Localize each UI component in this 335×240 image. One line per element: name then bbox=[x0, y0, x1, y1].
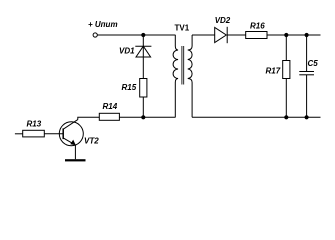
node junction top of VD1 bbox=[141, 33, 145, 37]
node +Upit terminal bbox=[93, 33, 97, 37]
wire collector to R14 bbox=[78, 117, 100, 119]
wire VD2 to R16 bbox=[227, 34, 246, 36]
resistor R17 bbox=[283, 61, 290, 79]
capacitor C5 bbox=[299, 35, 314, 117]
resistor R13 bbox=[23, 130, 45, 137]
transistor VT2 bbox=[59, 120, 83, 146]
transformer TV1 secondary winding bbox=[188, 35, 192, 117]
svg-text:R16: R16 bbox=[250, 21, 265, 30]
svg-text:R17: R17 bbox=[266, 66, 281, 75]
resistor R14 bbox=[99, 113, 119, 120]
resistor R16 bbox=[246, 32, 267, 39]
svg-text:VD1: VD1 bbox=[119, 47, 135, 56]
wire R15 bottom lead bbox=[142, 97, 144, 117]
resistor R15 bbox=[140, 79, 147, 98]
wire R17 top lead bbox=[285, 35, 287, 61]
svg-text:R14: R14 bbox=[103, 102, 118, 111]
wire top-right rail bbox=[267, 34, 321, 36]
svg-text:+ Uпит: + Uпит bbox=[88, 20, 118, 29]
wire R13 to base bbox=[44, 133, 63, 135]
node junction bottom of R17 bbox=[284, 115, 288, 119]
node junction bottom of R15 bbox=[141, 115, 145, 119]
wire left input to R13 bbox=[15, 133, 23, 135]
wire top rail left (terminal to transformer primary) bbox=[97, 34, 175, 36]
transformer TV1 core bbox=[181, 46, 183, 85]
transformer TV1 primary winding bbox=[173, 35, 178, 117]
wire emitter lead bbox=[74, 145, 76, 159]
wire bottom-left rail bbox=[119, 116, 175, 118]
node junction bottom of C5 bbox=[305, 115, 309, 119]
ground bbox=[65, 159, 86, 161]
svg-text:TV1: TV1 bbox=[175, 23, 190, 32]
svg-text:C5: C5 bbox=[308, 59, 319, 68]
svg-text:R15: R15 bbox=[122, 83, 137, 92]
wire bottom-right rail bbox=[192, 116, 321, 118]
wire secondary top to VD2 bbox=[192, 34, 215, 36]
svg-text:R13: R13 bbox=[27, 119, 42, 128]
svg-text:VD2: VD2 bbox=[215, 16, 231, 25]
wire R17 bottom lead bbox=[285, 79, 287, 118]
diode VD1 bbox=[135, 35, 151, 79]
node junction top of C5 bbox=[305, 33, 309, 37]
svg-text:VT2: VT2 bbox=[84, 137, 99, 146]
diode VD2 bbox=[215, 27, 228, 43]
node junction top of R17 bbox=[284, 33, 288, 37]
